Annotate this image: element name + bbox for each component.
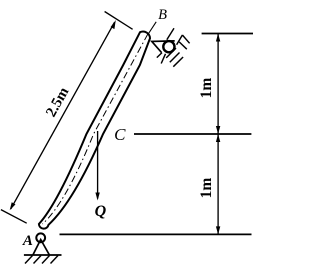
arrowhead up at top <box>216 34 220 42</box>
extension line bottom (perpendicular tick at A end) <box>1 210 27 224</box>
ground hatching at A <box>25 256 58 264</box>
force Q line <box>97 131 99 199</box>
centerline extension to B <box>148 22 156 35</box>
wall hatching at B <box>157 35 190 67</box>
wall line at B (upper, behind roller) <box>167 28 174 40</box>
svg-text:A: A <box>22 233 33 249</box>
ground line at A <box>24 254 62 256</box>
vertical dimension line <box>217 34 219 235</box>
svg-text:1m: 1m <box>198 178 215 199</box>
reference line top (level B) <box>202 33 253 35</box>
link triangle at B <box>152 41 175 53</box>
reference line middle (level C) <box>134 133 251 135</box>
arrowhead up to middle <box>216 134 220 142</box>
pin triangle at A <box>33 240 49 255</box>
pin circle at A <box>36 233 45 242</box>
wall line at B (lower) <box>161 54 165 64</box>
svg-text:C: C <box>114 125 126 144</box>
arrowhead down to middle <box>216 126 220 134</box>
extension line top (perpendicular tick at B end) <box>105 12 133 30</box>
svg-text:1m: 1m <box>198 78 215 99</box>
force Q arrowhead <box>95 193 99 201</box>
bar centerline (dash-dot) <box>43 34 148 224</box>
svg-text:Q: Q <box>95 203 107 220</box>
svg-text:B: B <box>158 7 167 23</box>
roller circle at B <box>163 41 174 52</box>
reference line bottom (level A) <box>60 233 252 235</box>
arrowhead down at bottom <box>216 226 220 234</box>
bar AB (double line with rounded caps) <box>39 32 150 229</box>
dimension line 2.5m (parallel to bar) <box>10 20 116 210</box>
